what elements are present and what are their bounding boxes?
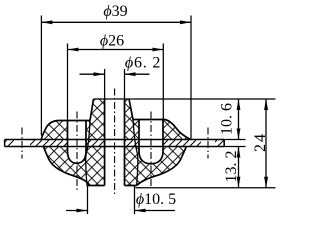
svg-text:ϕ6. 2: ϕ6. 2 (125, 55, 161, 72)
extension line bottom (136, 187, 276, 189)
dimension line 10.6 (238, 99, 240, 140)
body outline lower-left bell (44, 147, 91, 186)
main centerline (114, 89, 116, 195)
bolt hole centerline left (21, 128, 23, 159)
svg-text:10. 6: 10. 6 (218, 103, 235, 135)
dimension line 24 (265, 99, 267, 188)
annular slot left (white cutout) (68, 121, 87, 164)
extension line phi39 right (190, 16, 192, 139)
extension lines phi10.5 (88, 186, 135, 214)
inner skirt line left (86, 121, 90, 186)
slot left outline (68, 121, 87, 164)
extension line phi39 left (40, 16, 42, 136)
slot left centerline (76, 112, 78, 191)
dimension line 13.2 (238, 147, 240, 188)
extension lines flange top/bottom right (224, 140, 245, 147)
washer hatch segments (skipping bolt holes) (6, 140, 15, 146)
dimension line phi10.5 (arrows outside) (66, 210, 175, 212)
dimension line phi39 (41, 21, 191, 23)
slot right outline (139, 120, 163, 164)
inner skirt line right (133, 120, 138, 186)
annular slot right (white cutout) (139, 120, 163, 164)
bore walls (105, 99, 125, 186)
metal washer flange strip (white, then single hatch) (5, 140, 225, 147)
slot right centerline (150, 112, 152, 187)
washer strip outline (5, 140, 225, 147)
center bore (white cutout) (105, 99, 125, 186)
boss top edge + extension line for height dims (94, 98, 276, 100)
dimension line phi26 (68, 49, 164, 51)
svg-text:ϕ10. 5: ϕ10. 5 (136, 191, 176, 208)
bottom face segments (87, 185, 137, 187)
extension line phi6.2 right (124, 69, 126, 99)
body outline lower-right bell (137, 147, 187, 186)
extension line phi26 right (162, 44, 164, 120)
body outline upper-right (bulge, shoulder, rim top, boss wall) (129, 99, 191, 140)
body outline upper-left (boss wall, rim top, shoulder, bulge) (41, 99, 93, 140)
svg-text:ϕ26: ϕ26 (100, 33, 124, 50)
extension line phi26 left (67, 44, 69, 121)
svg-text:13. 2: 13. 2 (223, 151, 240, 183)
extension line phi6.2 left (104, 69, 106, 99)
svg-text:ϕ39: ϕ39 (103, 3, 127, 20)
svg-text:24: 24 (252, 132, 269, 152)
dimension line phi6.2 (arrows outside) (80, 73, 150, 75)
rubber body section fill (cross-hatched, slots+bore cut out) (41, 99, 191, 186)
bolt hole centerline right (207, 128, 209, 159)
